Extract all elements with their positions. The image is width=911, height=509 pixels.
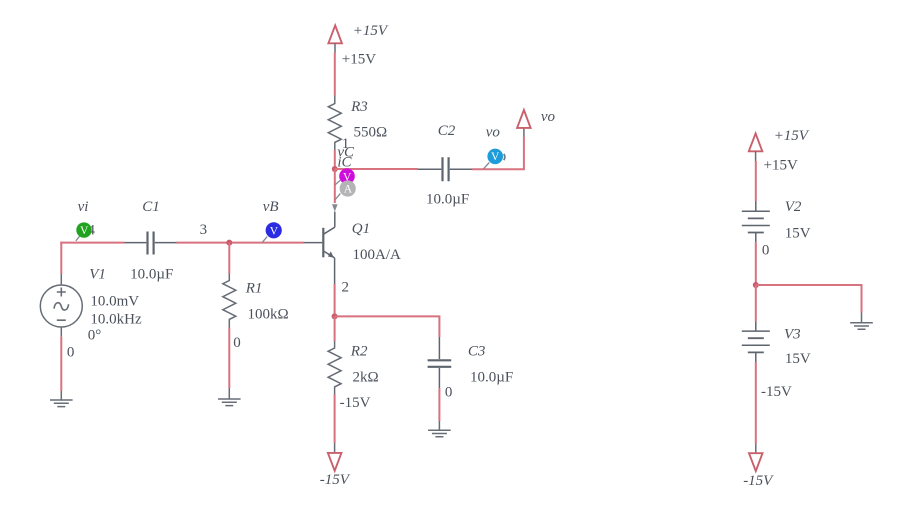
capacitor C3	[428, 337, 452, 388]
wire: V1 bottom to ground (net 0)	[60, 337, 62, 391]
svg-text:-15V: -15V	[743, 473, 774, 489]
battery V2	[742, 201, 770, 242]
svg-text:vi: vi	[78, 199, 89, 215]
wire: +15V down to V2	[755, 161, 757, 201]
svg-text:-15V: -15V	[320, 472, 351, 488]
AC source V1	[40, 285, 82, 327]
wire: node 3 down to R1	[228, 243, 230, 274]
wire: node 2 down to R2	[334, 316, 336, 341]
probe tail vi	[76, 235, 81, 241]
svg-text:C2: C2	[438, 123, 456, 139]
svg-text:Q1: Q1	[352, 221, 370, 237]
wire: C2 right to vo corner	[472, 137, 524, 170]
wire: emitter vertical gray	[334, 258, 336, 284]
svg-text:10.0µF: 10.0µF	[426, 191, 469, 207]
wire: mid node right to ground branch	[756, 285, 862, 313]
svg-text:0: 0	[762, 243, 770, 259]
wire: V1 top vertical to corner (net vi)	[60, 242, 62, 274]
svg-text:A: A	[344, 184, 353, 196]
svg-text:10.0µF: 10.0µF	[130, 266, 173, 282]
svg-text:+15V: +15V	[774, 128, 810, 144]
power arrow +15V (right rail)	[749, 133, 763, 151]
svg-text:vB: vB	[263, 199, 279, 215]
wire: +15V rail down to R3	[334, 53, 336, 96]
svg-text:C3: C3	[468, 343, 486, 359]
svg-text:0: 0	[67, 345, 75, 361]
svg-text:15V: 15V	[785, 351, 811, 367]
ground (V1)	[50, 391, 73, 407]
power arrow vo (output terminal)	[517, 110, 531, 128]
svg-text:100A/A: 100A/A	[353, 247, 402, 263]
wire: V2 bottom to mid node (net 0)	[755, 242, 757, 285]
svg-text:V2: V2	[785, 199, 802, 215]
wire: C1 right lead to Q1 base (node 3)	[177, 242, 304, 244]
wire: R1 bottom to ground	[228, 328, 230, 389]
wire: gray stub above right -15V arrow	[755, 444, 757, 454]
wire: collector node to C2 (net vC)	[335, 168, 418, 170]
svg-text:V1: V1	[89, 266, 106, 282]
hidden node number 5	[504, 154, 505, 160]
svg-text:-15V: -15V	[761, 384, 792, 400]
svg-text:vo: vo	[541, 109, 556, 125]
svg-text:10.0kHz: 10.0kHz	[90, 311, 142, 327]
wire: gray stub below +15V arrow	[334, 43, 336, 52]
svg-text:0: 0	[233, 335, 241, 351]
wire: collector node down to Q1 (current probe segment)	[334, 169, 336, 203]
svg-text:550Ω: 550Ω	[354, 124, 388, 140]
node 1 junction dot (collector, vC/iC)	[332, 166, 338, 172]
probe tail vB	[262, 237, 267, 243]
svg-text:0°: 0°	[88, 328, 102, 344]
voltage probe vi (green)	[76, 222, 91, 237]
probe tail iC	[335, 193, 341, 200]
wire: gray stub below right +15V arrow	[755, 151, 757, 161]
svg-text:0: 0	[445, 385, 453, 401]
Q1 emitter arrowhead	[328, 251, 334, 257]
resistor R2	[328, 341, 341, 395]
mid rail junction dot	[753, 282, 759, 288]
resistor R3	[328, 96, 341, 151]
wire: emitter to node 2	[334, 284, 336, 316]
svg-text:100kΩ: 100kΩ	[248, 307, 289, 323]
svg-text:3: 3	[200, 222, 208, 238]
svg-text:V3: V3	[784, 327, 801, 343]
svg-text:+15V: +15V	[764, 158, 798, 174]
voltage probe vo (cyan)	[487, 149, 503, 165]
wire: C3 bottom to ground (net 0)	[438, 388, 440, 421]
svg-text:vo: vo	[486, 125, 501, 141]
node 3 junction dot	[226, 240, 232, 246]
svg-text:10.0µF: 10.0µF	[470, 370, 513, 386]
svg-text:C1: C1	[142, 199, 160, 215]
power arrow -15V (below R2)	[328, 453, 342, 471]
resistor R1	[223, 274, 236, 328]
wire: V1 gray stub top	[60, 274, 62, 285]
wire: collector vertical into Q1	[334, 212, 336, 228]
capacitor C2	[418, 157, 472, 181]
svg-text:V: V	[270, 225, 279, 237]
wire: mid node down to V3	[755, 285, 757, 321]
svg-text:+15V: +15V	[353, 23, 389, 39]
voltage probe vB (blue)	[266, 222, 282, 238]
svg-text:2: 2	[342, 280, 350, 296]
svg-text:15V: 15V	[785, 226, 811, 242]
svg-text:R1: R1	[245, 280, 263, 296]
wire: gray stub above -15V arrow	[334, 443, 336, 453]
wire: gray stub below vo arrow	[523, 128, 525, 137]
svg-text:V: V	[491, 151, 500, 163]
wire: V3 bottom to -15V arrow	[755, 362, 757, 444]
ground (C3)	[428, 421, 451, 437]
svg-text:R2: R2	[350, 343, 368, 359]
iC current direction arrow	[332, 204, 338, 211]
svg-text:-15V: -15V	[340, 395, 371, 411]
svg-text:V: V	[80, 225, 89, 237]
svg-text:R3: R3	[350, 99, 368, 115]
wire: corner to C1 left lead (net vi)	[60, 242, 124, 244]
svg-text:iC: iC	[337, 154, 352, 170]
ground (right rail)	[850, 313, 873, 330]
svg-text:+15V: +15V	[342, 52, 376, 68]
capacitor C1	[125, 232, 177, 255]
node 2 junction dot	[332, 313, 338, 319]
wire: node 2 to C3 branch	[335, 316, 440, 337]
wire: R3 bottom to collector node 1	[334, 150, 336, 169]
power arrow +15V (main rail)	[328, 25, 342, 43]
wire: V1 bottom gray stub	[60, 327, 62, 337]
transistor Q1 (NPN)	[304, 227, 335, 258]
battery V3	[742, 321, 770, 362]
voltage probe vC (magenta)	[339, 168, 355, 184]
power arrow -15V (right rail)	[749, 453, 763, 471]
ground (R1)	[218, 388, 241, 406]
svg-text:2kΩ: 2kΩ	[353, 370, 379, 386]
current probe iC (gray)	[340, 180, 356, 196]
wire: R2 bottom to -15V arrow	[334, 395, 336, 444]
probe tail vC	[335, 180, 340, 185]
probe tail vo	[484, 163, 490, 169]
svg-text:10.0mV: 10.0mV	[90, 293, 139, 309]
